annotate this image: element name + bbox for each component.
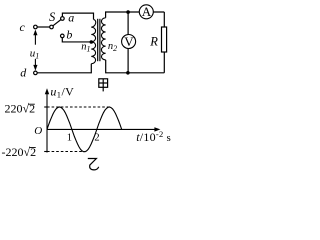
svg-text:c: c [20,20,26,34]
sine wave u1 [47,107,122,152]
svg-text:1: 1 [67,133,72,144]
ammeter A [139,4,153,19]
svg-text:R: R [149,34,158,48]
switch blade to contact a [53,20,61,26]
dashed level -220sqrt2 [47,151,85,153]
x axis [47,127,160,131]
tick -220sqrt2 [44,151,47,153]
svg-text:n1: n1 [81,41,90,53]
svg-text:-220√2: -220√2 [2,145,37,159]
svg-text:S: S [49,10,56,24]
y axis [45,88,49,152]
dashed level +220sqrt2 [47,106,110,108]
svg-text:u1/V: u1/V [50,84,74,99]
junction node top [126,10,130,14]
tick +220sqrt2 [44,106,47,108]
svg-text:O: O [34,125,42,137]
label 220sqrt2 [5,102,36,116]
terminal d [20,65,37,79]
u1 source arrow up [33,30,37,45]
terminal c [20,20,38,34]
svg-text:u1: u1 [30,47,40,60]
contact b [61,28,73,42]
svg-text:b: b [66,28,72,42]
svg-text:220√2: 220√2 [5,102,36,116]
label -220sqrt2 [2,145,37,159]
contact a [61,11,75,25]
switch S pivot [49,10,56,29]
label yi (figure 2) [88,159,99,170]
wire primary coil bottom to d [37,64,91,73]
wire secondary top [106,12,165,18]
u1 source arrow down [33,59,37,71]
voltmeter V [122,34,136,49]
svg-text:d: d [20,65,27,79]
wire b to coil tap [62,38,91,42]
primary coil n1 [91,19,95,63]
junction node bottom [126,71,130,75]
secondary coil n2 [101,18,105,60]
resistor R [149,27,166,52]
svg-text:V: V [124,34,134,49]
wire right branch [163,12,165,73]
svg-text:A: A [142,4,152,19]
tap junction dot [90,40,94,44]
svg-text:t/10-2 s: t/10-2 s [136,129,171,144]
wire c to switch pivot [37,26,50,28]
wire secondary bottom [106,60,165,73]
label jia (figure 1) [99,79,108,92]
transformer core [98,19,100,61]
wire contact a up and right to primary coil top [62,13,93,19]
svg-text:n2: n2 [108,41,117,53]
wire voltmeter branch [127,12,129,73]
